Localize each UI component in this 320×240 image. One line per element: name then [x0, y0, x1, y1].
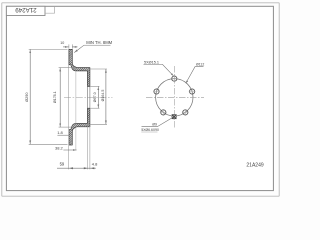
svg-text:Ø178.1: Ø178.1 — [53, 91, 57, 103]
svg-text:MIN TH. 8MM: MIN TH. 8MM — [86, 40, 112, 45]
svg-text:5XØ15.1: 5XØ15.1 — [144, 60, 159, 64]
svg-text:Ø290: Ø290 — [25, 93, 29, 102]
svg-text:10: 10 — [60, 41, 64, 45]
svg-text:Ø67.0: Ø67.0 — [93, 92, 97, 102]
svg-text:21A249: 21A249 — [15, 6, 37, 13]
svg-text:Ø9: Ø9 — [152, 123, 157, 127]
svg-text:1.8: 1.8 — [57, 130, 63, 135]
svg-text:59: 59 — [60, 162, 65, 167]
svg-text:5XØ6.6X90: 5XØ6.6X90 — [141, 128, 159, 132]
svg-text:4.8: 4.8 — [92, 162, 98, 167]
svg-text:Ø112: Ø112 — [196, 63, 204, 67]
svg-text:38.2: 38.2 — [55, 145, 64, 150]
svg-text:21A249: 21A249 — [246, 162, 263, 168]
svg-text:Ø164.5: Ø164.5 — [101, 90, 105, 102]
